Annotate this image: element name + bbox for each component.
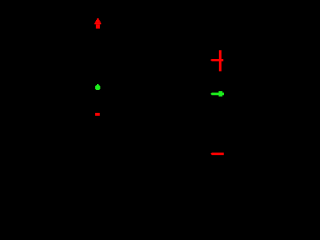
voltage source V1 positive terminal (red plus with left current arrow) <box>210 50 223 71</box>
node A / lit LED D1 (green dot) <box>95 84 100 90</box>
power symbol VCC (red up arrow) <box>94 18 101 28</box>
current arrow I2 (red, pointing left) <box>211 153 224 156</box>
current arrow I1 (green, pointing left with block) <box>210 91 224 96</box>
resistor R1 body (red rectangle) <box>95 113 100 116</box>
